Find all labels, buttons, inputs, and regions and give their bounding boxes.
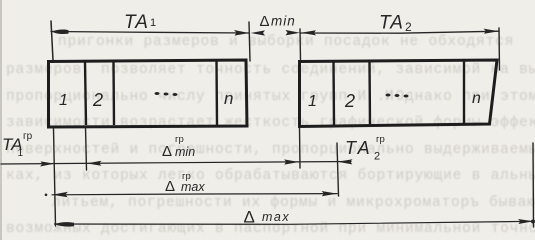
svg-text:max: max <box>262 210 290 224</box>
label Dmax (bottom) <box>244 208 291 227</box>
divider box2 c <box>463 61 465 125</box>
arrow TA1 left <box>52 30 69 34</box>
arrow TA2gr right outside (points left at x=337) <box>338 159 353 164</box>
svg-text:гр: гр <box>175 134 184 145</box>
arrow TA1 right <box>234 30 249 36</box>
long dimension line TA1gr + Dgrmin row <box>1 162 351 165</box>
pen dot left of Dgrmax <box>45 194 48 197</box>
label Dmin (top) <box>260 13 296 30</box>
dimension line TA2 <box>300 31 499 33</box>
extension line below divider box2 a <box>337 143 339 196</box>
svg-text:max: max <box>181 180 205 194</box>
svg-text:литьем, погрешности их формы и: литьем, погрешности их формы и микрохром… <box>52 194 535 211</box>
group box 1 <box>49 60 248 127</box>
arrow Dgrmax right <box>322 191 338 196</box>
cell labels box 1 <box>59 89 233 110</box>
svg-text:2: 2 <box>405 20 412 34</box>
extension line below box2 left edge <box>299 128 302 168</box>
dots box2 <box>386 94 409 98</box>
svg-text:TA: TA <box>379 13 404 34</box>
extension line Dmin right / box2 left <box>299 29 302 60</box>
svg-text:гр: гр <box>376 134 385 145</box>
svg-text:n: n <box>472 90 481 107</box>
label Dgr max <box>165 171 205 195</box>
label TA2 <box>379 13 412 35</box>
svg-text:пригонки размеров и выборки по: пригонки размеров и выборки посадок не о… <box>58 33 514 50</box>
left page edge shadow <box>0 0 2 240</box>
divider box2 a <box>332 62 335 126</box>
dimension line TA1 <box>51 32 249 34</box>
svg-text:1: 1 <box>18 148 24 159</box>
svg-text:1: 1 <box>59 92 68 109</box>
divider box1 b <box>112 62 115 126</box>
arrow Dmax left <box>55 222 75 227</box>
arrow TA2 left <box>301 30 316 35</box>
label TA2gr <box>345 134 385 163</box>
svg-text:1: 1 <box>150 17 156 29</box>
arrow Dgrmin right (points right at x=299) <box>284 159 299 164</box>
dimension line Dmax <box>55 221 534 224</box>
arrow TA2 right <box>484 29 500 34</box>
svg-text:Δ: Δ <box>260 13 270 30</box>
extension line between TA1 and Dmin <box>249 22 250 61</box>
cell labels box 2 <box>308 90 481 111</box>
svg-text:n: n <box>224 89 233 108</box>
extension line top-right <box>498 28 501 70</box>
svg-text:2: 2 <box>374 151 380 163</box>
arrow Dgrmin left (points left at x=86) <box>87 161 102 166</box>
svg-text:гр: гр <box>23 131 33 142</box>
svg-text:1: 1 <box>308 93 317 110</box>
extension line below divider box1 a <box>86 127 87 170</box>
dots box1 <box>155 92 178 96</box>
label Dgr min <box>162 134 195 160</box>
extension line bottom-right <box>532 143 535 227</box>
svg-text:Δ: Δ <box>165 178 175 195</box>
divider box1 a <box>85 62 86 125</box>
arrow Dmax right <box>518 219 534 224</box>
svg-text:Δ: Δ <box>244 208 255 227</box>
divider box1 c <box>215 61 218 126</box>
dimension line Dgrmax <box>52 194 337 195</box>
group box 2 <box>300 60 498 127</box>
svg-text:min: min <box>271 14 296 29</box>
arrow TA1gr left outside (points right at x=54) <box>40 161 55 166</box>
svg-text:2: 2 <box>92 90 103 110</box>
svg-text:ках, из которых легко обрабаты: ках, из которых легко обрабатываются бор… <box>6 167 535 184</box>
arrow Dmin right (points right at x=300) <box>286 30 301 35</box>
arrow Dgrmax left <box>52 192 68 197</box>
label TA1gr (left) <box>2 131 33 159</box>
divider box2 b <box>368 61 371 126</box>
svg-text:2: 2 <box>344 91 355 111</box>
svg-text:И: И <box>385 89 395 105</box>
svg-text:TA: TA <box>124 12 149 33</box>
svg-text:TA: TA <box>345 138 373 158</box>
arrow Dmin left (points left at x=250) <box>251 30 266 35</box>
label TA1 <box>124 12 156 33</box>
svg-text:min: min <box>175 145 195 159</box>
extension line top-left <box>51 21 53 60</box>
extension line bottom-left long <box>54 129 56 226</box>
svg-text:Δ: Δ <box>162 143 172 160</box>
